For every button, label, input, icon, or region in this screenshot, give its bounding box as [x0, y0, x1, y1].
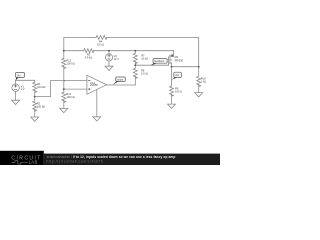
node flag feedback — [150, 59, 167, 66]
logo box — [0, 151, 44, 165]
wire op-amp V- stub — [96, 90, 98, 117]
svg-text:Out: Out — [175, 74, 179, 77]
wire 12V rail — [64, 50, 174, 52]
svg-text:10 kΩ: 10 kΩ — [97, 43, 104, 47]
resistor R4 — [96, 35, 107, 39]
svg-text:10 kΩ: 10 kΩ — [141, 71, 148, 75]
wire M1 source row to right vertical — [172, 66, 199, 68]
op-amp +/- marks — [88, 81, 90, 90]
svg-text:LAB: LAB — [29, 160, 38, 165]
svg-text:100 kΩ: 100 kΩ — [37, 85, 45, 89]
svg-text:arduinoshacker / 9 to 12, inpu: arduinoshacker / 9 to 12, inputs scaled … — [47, 155, 176, 159]
resistor R2 — [33, 97, 37, 117]
svg-text:100 kΩ: 100 kΩ — [66, 95, 74, 99]
voltage source V1 — [12, 84, 19, 91]
junction V2 on rail — [108, 50, 110, 52]
junction dots — [34, 50, 200, 98]
ground under R11 — [60, 108, 68, 112]
component labels — [21, 40, 207, 109]
junction R7 top on rail — [134, 50, 136, 52]
node flag Vin — [16, 72, 25, 80]
ground under op-amp — [93, 117, 101, 121]
ground under V1 — [12, 100, 20, 104]
op-amp OA1 triangle — [87, 75, 107, 94]
junction R1/R2 divider — [34, 96, 36, 98]
left bus wire — [63, 51, 65, 109]
footer bar — [44, 154, 220, 165]
wire V1 top to R1 — [16, 80, 35, 82]
node flag Out — [172, 72, 182, 80]
resistor R7 — [133, 51, 137, 65]
resistor R3 — [84, 49, 94, 53]
logo text LAB — [12, 161, 28, 164]
wire top feedback from bus to right vertical — [64, 37, 199, 66]
ground under R2 — [31, 117, 39, 121]
svg-text:output: output — [117, 78, 124, 81]
resistor R11 — [62, 92, 66, 102]
transistor M1 — [168, 51, 173, 67]
op-amp input wires — [51, 81, 87, 97]
ground under R10 — [195, 93, 203, 97]
wire op-amp output to R8 bottom — [107, 84, 136, 86]
wire gate from divider node — [135, 64, 168, 66]
svg-text:http://circuitlab.com/c/4c67b: http://circuitlab.com/c/4c67b — [47, 160, 104, 164]
ground under V2 — [105, 66, 113, 70]
resistor R8 — [133, 65, 137, 85]
junction bus / op-amp input — [63, 88, 65, 90]
resistor R12 — [62, 58, 66, 68]
ground under R9 — [168, 104, 176, 108]
node flag output — [112, 77, 125, 85]
junction bus / R3 rail — [63, 50, 65, 52]
voltage source V2 — [105, 54, 112, 61]
wire divider junction step to op-amp — [35, 96, 51, 98]
wire M1 source down to R9 — [171, 67, 173, 86]
junction R7/R8 gate node — [134, 64, 136, 66]
resistor R9 — [170, 86, 174, 104]
junction output node right — [198, 66, 200, 68]
svg-text:feedback: feedback — [154, 60, 165, 63]
svg-text:10 kΩ: 10 kΩ — [141, 56, 148, 60]
svg-text:1 kΩ: 1 kΩ — [201, 79, 206, 83]
svg-text:100 kΩ: 100 kΩ — [66, 61, 74, 65]
junction M1 source node — [171, 66, 173, 68]
wire crossing mark — [64, 80, 66, 82]
svg-text:12 V: 12 V — [114, 57, 120, 61]
svg-text:100 Ω: 100 Ω — [175, 89, 182, 93]
svg-text:IRF530: IRF530 — [175, 58, 184, 62]
svg-text:100 kΩ: 100 kΩ — [37, 104, 45, 108]
svg-text:1 V: 1 V — [21, 87, 25, 91]
resistor R10 — [197, 67, 201, 93]
svg-text:LM358: LM358 — [90, 83, 98, 87]
svg-text:3.9 kΩ: 3.9 kΩ — [85, 55, 93, 59]
resistor R1 — [33, 82, 37, 96]
